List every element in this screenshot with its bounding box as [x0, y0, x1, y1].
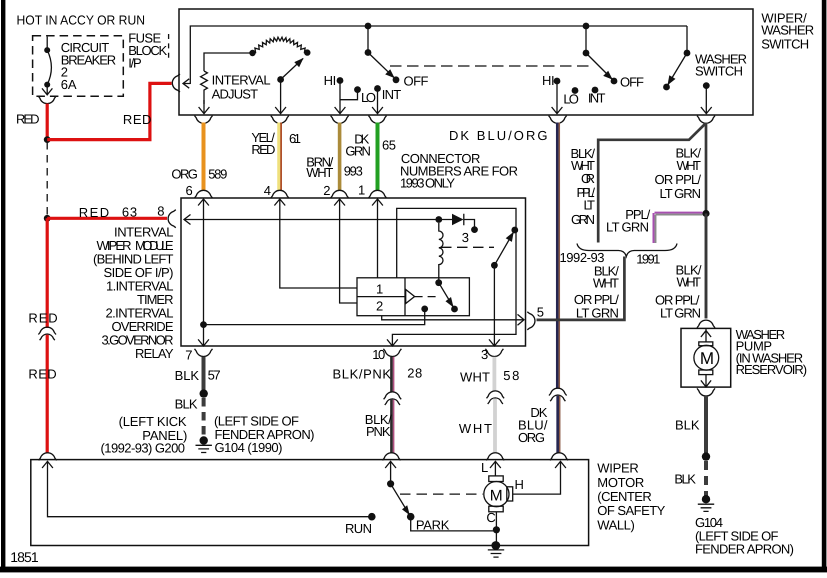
wire washer switch output down (1991): [705, 124, 708, 318]
wire WHT 58 from pin 3: [492, 357, 496, 392]
circuit breaker CB2 symbol: [42, 37, 52, 95]
svg-text:LT GRN: LT GRN: [660, 306, 701, 321]
connector into bottom box: [39, 453, 57, 461]
wire BLK dashed to ground: [704, 461, 708, 497]
svg-text:63: 63: [122, 205, 137, 220]
svg-text:WHT: WHT: [460, 369, 490, 384]
svg-text:HI: HI: [324, 73, 337, 88]
pin 8 feed line with diode: [184, 215, 452, 225]
border frame: [1, 0, 5, 572]
node junction dot: [44, 136, 51, 143]
ground at motor case: [488, 541, 504, 557]
wire YEL/RED 61: [279, 123, 281, 191]
circuit breaker box (fuse block, dashed): [33, 36, 124, 96]
connector at switch left edge: [172, 74, 180, 92]
label BLK: [674, 472, 696, 487]
contact HI: [324, 73, 344, 88]
dashed link park to motor: [400, 493, 483, 495]
label G104 (LEFT SIDE OF FENDER APRON): [695, 515, 794, 556]
svg-text:(1992-93) G200: (1992-93) G200: [101, 441, 186, 456]
svg-text:(CENTER: (CENTER: [597, 489, 652, 504]
svg-text:(LEFT KICK: (LEFT KICK: [119, 414, 187, 429]
svg-text:BLK: BLK: [675, 417, 700, 432]
svg-text:WHT: WHT: [677, 158, 702, 173]
contact LO 2: [563, 87, 579, 107]
svg-text:1993 ONLY: 1993 ONLY: [400, 176, 455, 191]
svg-text:RED: RED: [79, 205, 110, 220]
svg-text:4: 4: [264, 183, 271, 198]
label 1992-93: [560, 250, 605, 265]
svg-text:G104 (1990): G104 (1990): [215, 440, 283, 455]
svg-text:LO: LO: [361, 90, 376, 105]
wire dashed black tie: [46, 142, 48, 216]
svg-text:RED: RED: [28, 367, 56, 382]
svg-text:SWITCH: SWITCH: [761, 36, 809, 51]
svg-text:BLK: BLK: [175, 368, 200, 383]
connector inline break: [487, 391, 505, 404]
wire RED down to wiper motor box: [46, 218, 49, 328]
connectors below switch box: [195, 116, 716, 124]
wire BLK dashed to ground G200: [202, 398, 206, 437]
wire merged BLK/WHT or PPL/LT GRN to module pin 5: [537, 257, 625, 320]
label PPL/ LT GRN: [606, 207, 651, 235]
relay dashed link: [441, 246, 494, 248]
svg-text:(LEFT SIDE OF: (LEFT SIDE OF: [214, 413, 299, 428]
resistor interval adjust: [201, 53, 253, 104]
connector below breaker: [38, 96, 56, 104]
diode: [452, 214, 475, 227]
svg-text:OFF: OFF: [620, 75, 644, 90]
contact RUN: [345, 513, 376, 536]
switch arm OFF (1993): [365, 23, 400, 84]
label BLK/ WHT OR PPL/ LT GRN (below brace left): [574, 264, 619, 321]
wire BLK 57 from pin 7: [202, 357, 206, 392]
label WHT: [459, 421, 492, 436]
relay switch arm: [491, 227, 518, 269]
connector at module pin 5: [527, 312, 535, 330]
relay coil: [439, 223, 443, 283]
label WASHER SWITCH: [695, 52, 747, 79]
label ORG 589: [171, 167, 227, 182]
label RED 63 8: [79, 203, 165, 220]
label OFF: [404, 73, 429, 88]
svg-text:28: 28: [407, 365, 422, 380]
svg-text:1851: 1851: [10, 549, 39, 565]
svg-text:BLK/PNK: BLK/PNK: [333, 366, 392, 381]
svg-text:589: 589: [208, 167, 227, 182]
label DK BLU/ORG: [449, 128, 548, 143]
wire INT to pin 1: [372, 89, 383, 114]
connector at module pin 8: [168, 210, 176, 228]
label BLK 57: [175, 368, 221, 383]
svg-text:WIPER: WIPER: [597, 461, 639, 476]
module bottom connectors: [195, 349, 504, 357]
wire DK BLU/ORG from HI2: [557, 123, 559, 389]
contact INT: [374, 85, 401, 102]
park wire to C: [411, 517, 497, 531]
node splice dot: [702, 452, 710, 460]
svg-text:HI: HI: [542, 73, 555, 88]
label BLK/ WHT OR PPL/ LT GRN (1991 upper): [655, 146, 702, 201]
node dot pin6 bus: [200, 321, 207, 328]
connector inline break: [549, 388, 567, 401]
relay output wire to pin 3: [489, 265, 500, 346]
label BLK/ PNK: [365, 412, 392, 439]
svg-text:SWITCH: SWITCH: [695, 64, 743, 79]
svg-text:1: 1: [376, 282, 383, 297]
label (LEFT KICK PANEL) (1992-93) G200: [101, 414, 188, 456]
dashed link to timer switch: [415, 296, 437, 298]
wire RED branch to wiper/washer switch: [47, 83, 171, 139]
svg-text:1: 1: [358, 183, 365, 198]
label DK GRN 65: [345, 132, 396, 159]
svg-text:ADJUST: ADJUST: [212, 87, 259, 102]
contact PARK: [407, 513, 450, 533]
wire RED vertical from breaker: [46, 104, 49, 140]
comparator triangle: [406, 290, 415, 304]
label INTERVAL ADJUST: [212, 73, 271, 102]
module top connectors: [195, 190, 387, 198]
label CIRCUIT BREAKER 2 6A: [61, 40, 116, 92]
label BLK/PNK 28: [333, 365, 423, 381]
label WIPER/ WASHER SWITCH: [761, 11, 814, 52]
connector at washer pump: [697, 320, 715, 328]
label 5: [537, 304, 544, 319]
contact INT 2: [588, 87, 606, 106]
svg-text:BLK: BLK: [175, 396, 198, 411]
wire PPL/LT GRN 1991 branch: [654, 213, 703, 243]
svg-text:GRN: GRN: [571, 212, 595, 227]
timer contact to pin6 bus: [204, 306, 429, 325]
node HOT IN ACCY OR RUN: [17, 13, 146, 28]
pot wiper lever: [277, 58, 303, 83]
svg-text:INTERVAL: INTERVAL: [212, 73, 271, 88]
wire arrow to pin 4: [275, 80, 286, 114]
connector below washer pump: [697, 388, 715, 396]
pin 2 wire inside module: [334, 199, 357, 303]
svg-text:RUN: RUN: [345, 521, 372, 536]
svg-text:HOT IN ACCY OR RUN: HOT IN ACCY OR RUN: [17, 13, 146, 28]
wire washer switch output to 1992-93 branch: [598, 124, 705, 243]
label BLK/ WHT OR PPL/ LT GRN (1992-93): [571, 146, 596, 227]
connector inline break: [38, 327, 56, 340]
splice brace 1992-93 / 1991: [577, 244, 677, 257]
svg-text:3: 3: [462, 230, 469, 245]
svg-text:WALL): WALL): [597, 517, 635, 532]
wire BLK/PNK 28 from pin 10: [392, 357, 394, 392]
interval wiper module box: [181, 198, 526, 346]
contact LO: [354, 86, 376, 105]
svg-text:LT GRN: LT GRN: [660, 186, 702, 201]
svg-text:GRN: GRN: [345, 143, 371, 158]
svg-text:WHT: WHT: [677, 275, 702, 290]
svg-text:DK BLU/ORG: DK BLU/ORG: [449, 128, 548, 143]
svg-text:6A: 6A: [61, 77, 77, 92]
park switch arm: [385, 461, 410, 515]
wire ORG 589: [202, 123, 206, 191]
svg-text:1991: 1991: [636, 252, 660, 267]
svg-text:6: 6: [186, 183, 193, 198]
wire RED continues: [46, 335, 49, 454]
wire H to DK BLU/ORG entry: [513, 461, 566, 494]
pin 6 wire inside module: [198, 199, 209, 346]
svg-text:RED: RED: [251, 142, 275, 157]
wire arrow to pin 6: [199, 100, 210, 114]
timer switch arm: [435, 279, 458, 312]
svg-text:PNK: PNK: [366, 424, 391, 439]
wire 1991 into washer pump: [705, 214, 708, 319]
pin 5 output wire: [382, 314, 524, 325]
ground G104: [698, 495, 714, 511]
svg-text:C: C: [486, 510, 495, 525]
svg-text:RESERVOIR): RESERVOIR): [736, 362, 808, 377]
svg-text:8: 8: [157, 203, 164, 218]
svg-text:OF SAFETY: OF SAFETY: [597, 503, 665, 518]
pin 4 wire inside module: [274, 199, 356, 288]
wire feed bus inside switch: [183, 26, 687, 88]
svg-text:WHT: WHT: [459, 421, 492, 436]
label WHT 58: [460, 368, 519, 385]
svg-text:BREAKER: BREAKER: [61, 53, 116, 68]
label YEL/ RED 61: [251, 130, 301, 157]
connector into wiper motor box: [383, 453, 401, 461]
svg-text:RED: RED: [16, 111, 40, 126]
label BLK: [175, 396, 198, 411]
ground G200/G104: [196, 436, 212, 452]
inner loop wire pin10: [387, 208, 516, 346]
connector inline break: [384, 392, 402, 405]
svg-text:OFF: OFF: [404, 73, 429, 88]
label WIPER MOTOR (CENTER OF SAFETY WALL): [597, 461, 665, 533]
RUN feed wire: [42, 461, 370, 517]
svg-text:L: L: [481, 460, 488, 475]
label 3 (governor relay): [462, 230, 469, 245]
svg-text:3: 3: [481, 347, 488, 362]
potentiometer track: [249, 37, 310, 56]
svg-text:WHT: WHT: [593, 276, 619, 291]
svg-text:RELAY: RELAY: [135, 346, 174, 361]
svg-text:I/P: I/P: [128, 55, 142, 70]
label RED: [28, 311, 57, 326]
connector into wiper motor box: [486, 453, 504, 461]
wire HI2 down: [552, 81, 563, 114]
svg-text:ORG: ORG: [518, 430, 545, 445]
label OFF: [620, 75, 644, 90]
svg-text:57: 57: [208, 368, 221, 383]
label RED: [28, 367, 56, 382]
svg-text:RED: RED: [123, 112, 151, 127]
svg-text:993: 993: [344, 164, 363, 179]
washer pump motor M: [694, 328, 719, 387]
label 1991: [636, 252, 660, 267]
svg-text:ORG: ORG: [171, 167, 198, 182]
wire WHT continues: [493, 399, 497, 454]
node terminal dot after diode: [471, 226, 478, 233]
fuse block dashed divider: [168, 34, 170, 62]
svg-text:65: 65: [382, 138, 396, 153]
svg-text:LT: LT: [584, 198, 596, 213]
note CONNECTOR NUMBERS ARE FOR 1993 ONLY: [400, 151, 518, 191]
label RED: [123, 112, 151, 127]
washer pump box: [681, 328, 731, 387]
svg-text:LT GRN: LT GRN: [576, 306, 619, 321]
svg-text:5: 5: [537, 304, 544, 319]
wire RED branch to interval wiper module pin 8: [47, 217, 167, 220]
wiper/washer switch box: [179, 9, 753, 115]
pin 1 wire inside module: [372, 199, 383, 278]
wiper motor M: [481, 460, 513, 512]
label WASHER PUMP (IN WASHER RESERVOIR): [736, 327, 808, 377]
svg-text:INT: INT: [382, 87, 402, 102]
svg-text:LT GRN: LT GRN: [606, 219, 649, 234]
pin labels 7 10 3: [185, 347, 488, 362]
contact HI 2: [542, 73, 560, 88]
wire BLK/PNK continues: [392, 400, 394, 454]
label BRN/ WHT 993: [306, 154, 363, 180]
label (LEFT SIDE OF FENDER APRON) G104 (1990): [214, 413, 315, 455]
svg-text:MOTOR: MOTOR: [597, 475, 644, 490]
washer output contact: [701, 82, 712, 113]
svg-text:61: 61: [289, 131, 301, 146]
mechanical link dashed: [390, 65, 593, 67]
svg-text:INT: INT: [588, 90, 606, 105]
svg-text:WHT: WHT: [306, 165, 333, 180]
label DK BLU/ ORG: [518, 405, 548, 445]
wire HI to pin 2: [335, 81, 358, 114]
node junction dot at relay coil: [435, 216, 442, 223]
label H: [515, 477, 524, 492]
svg-text:M: M: [490, 487, 503, 504]
label 1851: [10, 549, 39, 565]
svg-text:LO: LO: [563, 92, 579, 107]
svg-text:OR: OR: [581, 171, 595, 186]
washer switch arm: [663, 26, 690, 90]
switch arm OFF 2: [583, 23, 618, 85]
label BLK: [675, 417, 700, 432]
wiper motor box: [31, 460, 589, 546]
label BLK/ WHT OR PPL/ LT GRN (1991 lower): [655, 262, 702, 320]
wire BRN/WHT 993: [338, 123, 342, 191]
svg-text:BLK: BLK: [674, 472, 696, 487]
label RED: [16, 111, 40, 126]
timer box 1 2: [357, 278, 469, 316]
wire BLK from washer pump: [704, 396, 708, 456]
svg-text:58: 58: [503, 368, 519, 383]
svg-text:2: 2: [323, 183, 330, 198]
label FUSE BLOCK I/P: [128, 31, 167, 71]
connector into wiper motor box: [550, 453, 568, 461]
wire C to ground: [486, 510, 500, 545]
pin labels 6 4 2 1: [186, 183, 366, 199]
svg-text:RED: RED: [28, 311, 57, 326]
svg-text:7: 7: [185, 348, 192, 363]
label INTERVAL WIPER MODULE (BEHIND LEFT SIDE OF I/P) 1.INTERVAL TIMER 2.INTERVAL OVERRIDE 3.GOVERNOR RELAY: [93, 224, 174, 360]
node junction dot on 1991 wire: [702, 210, 709, 217]
wire DK GRN 65: [376, 123, 380, 191]
node splice dot: [200, 389, 208, 397]
svg-text:10: 10: [372, 347, 385, 362]
svg-text:FENDER APRON): FENDER APRON): [695, 542, 794, 557]
svg-text:H: H: [515, 477, 524, 492]
node junction dot: [44, 215, 51, 222]
wire DK BLU/ORG continues: [558, 396, 560, 454]
svg-text:M: M: [700, 349, 714, 368]
svg-text:2: 2: [376, 298, 383, 313]
